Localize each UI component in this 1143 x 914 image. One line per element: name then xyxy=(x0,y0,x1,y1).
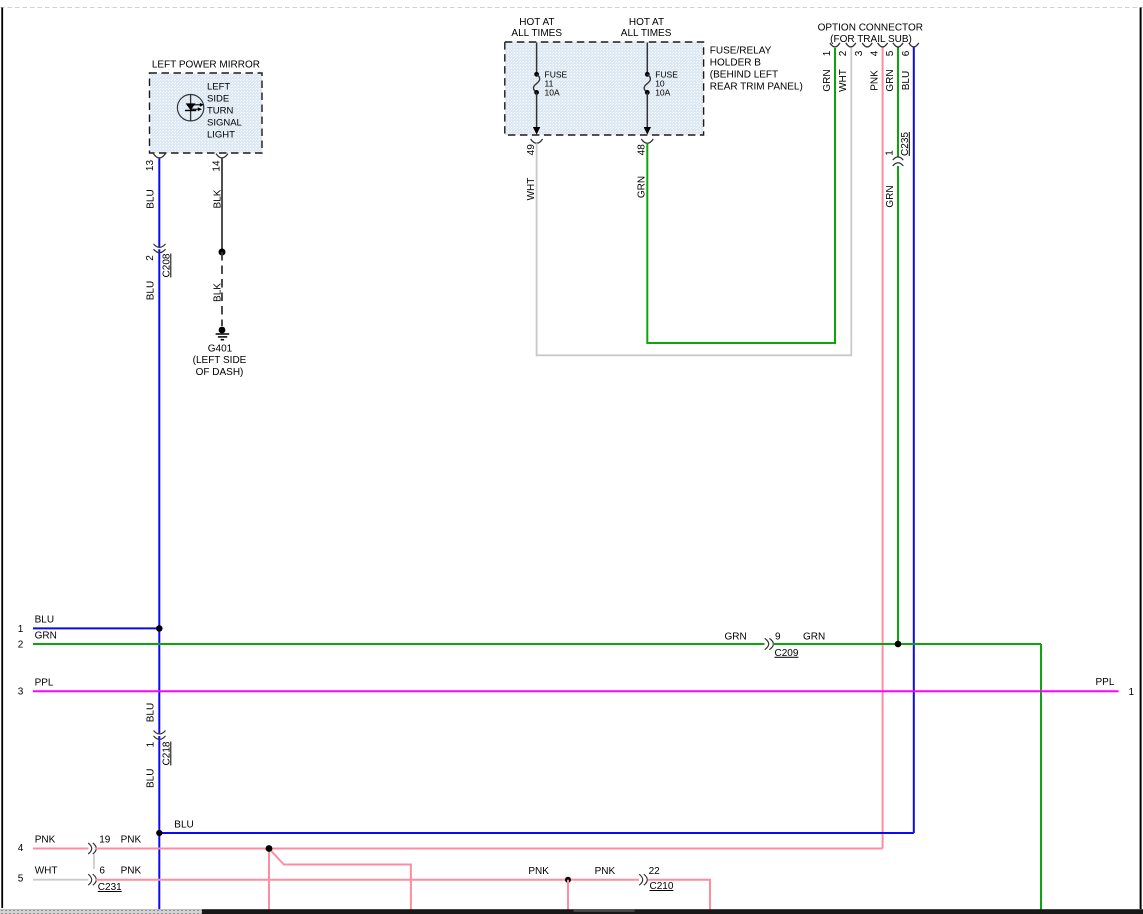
svg-text:PPL: PPL xyxy=(1096,677,1115,688)
svg-text:3: 3 xyxy=(854,50,865,56)
svg-text:22: 22 xyxy=(649,866,661,877)
svg-text:GRN: GRN xyxy=(885,69,896,91)
fuse 11 symbol xyxy=(533,43,568,135)
mirror box label text xyxy=(207,82,242,141)
svg-text:BLU: BLU xyxy=(901,71,912,90)
svg-text:GRN: GRN xyxy=(822,69,833,91)
svg-text:GRN: GRN xyxy=(637,176,648,198)
svg-text:LEFT: LEFT xyxy=(207,82,230,93)
svg-text:6: 6 xyxy=(901,50,912,56)
svg-text:C208: C208 xyxy=(161,253,172,277)
svg-text:C231: C231 xyxy=(98,882,122,893)
svg-text:WHT: WHT xyxy=(35,866,58,877)
svg-text:C209: C209 xyxy=(775,648,799,659)
svg-text:BLU: BLU xyxy=(146,769,157,788)
svg-text:C218: C218 xyxy=(161,741,172,765)
wire PNK vertical pin4 xyxy=(882,48,884,849)
svg-text:4: 4 xyxy=(870,50,881,56)
svg-text:WHT: WHT xyxy=(838,69,849,92)
svg-text:(BEHIND LEFT: (BEHIND LEFT xyxy=(710,70,778,81)
svg-text:3: 3 xyxy=(18,687,24,698)
svg-text:PNK: PNK xyxy=(121,834,142,845)
svg-text:9: 9 xyxy=(775,631,781,642)
wire WHT loop fuse11 to option pin2 xyxy=(537,48,852,355)
splice dot xyxy=(219,249,226,256)
wire PNK vertical from wire5 junction xyxy=(567,880,569,910)
svg-text:5: 5 xyxy=(18,874,24,885)
wire BLU vertical from pin 13 xyxy=(158,158,160,247)
pin 13 connector cup xyxy=(153,154,165,158)
wire 2 GRN horizontal left of C209 xyxy=(33,643,765,645)
svg-text:SIDE: SIDE xyxy=(207,94,229,105)
wire 4 PNK horizontal right xyxy=(96,848,883,850)
wire 2 GRN horizontal right of C209 xyxy=(773,643,1041,645)
svg-text:10A: 10A xyxy=(655,87,670,97)
svg-text:BLU: BLU xyxy=(146,703,157,722)
svg-text:1: 1 xyxy=(18,624,24,635)
svg-text:BLU: BLU xyxy=(35,614,54,625)
node wire5 junction xyxy=(565,877,571,883)
svg-text:PPL: PPL xyxy=(35,678,54,689)
svg-text:HOT AT: HOT AT xyxy=(629,17,664,28)
wire GRN vertical pin5 upper xyxy=(897,48,899,158)
svg-text:GRN: GRN xyxy=(803,631,825,642)
svg-text:GRN: GRN xyxy=(885,185,896,207)
fuse 10 symbol xyxy=(644,43,679,135)
svg-text:LIGHT: LIGHT xyxy=(207,130,235,141)
wire 5 PNK horizontal xyxy=(96,879,639,881)
svg-text:PNK: PNK xyxy=(595,866,616,877)
svg-text:REAR TRIM PANEL): REAR TRIM PANEL) xyxy=(710,82,803,93)
svg-text:PNK: PNK xyxy=(35,834,56,845)
svg-text:1: 1 xyxy=(822,50,833,56)
wire PNK vertical from junction xyxy=(268,849,270,910)
svg-text:OF DASH): OF DASH) xyxy=(196,367,244,378)
page border top dashed xyxy=(0,7,1143,9)
connector C231 arcs wire4 xyxy=(88,843,92,854)
svg-text:WHT: WHT xyxy=(526,178,537,201)
pin 48 connector cup xyxy=(641,139,653,143)
bottom bar dark xyxy=(0,909,1143,914)
connector C210 arcs xyxy=(639,874,643,885)
wire PNK branch diagonal xyxy=(270,850,411,910)
svg-text:(FOR TRAIL SUB): (FOR TRAIL SUB) xyxy=(830,34,912,45)
connector C208 arcs xyxy=(154,244,166,248)
HOT AT ALL TIMES label fuse 11 xyxy=(511,17,562,39)
svg-text:HOT AT: HOT AT xyxy=(519,17,554,28)
svg-text:GRN: GRN xyxy=(725,631,747,642)
connector C235 arcs xyxy=(893,157,904,160)
svg-text:48: 48 xyxy=(637,144,648,156)
svg-text:FUSE/RELAY: FUSE/RELAY xyxy=(710,46,772,57)
wire 1 BLU horizontal xyxy=(33,627,159,629)
LED symbol (left side turn signal light) xyxy=(177,94,204,121)
svg-text:C235: C235 xyxy=(900,132,911,156)
svg-text:GRN: GRN xyxy=(35,631,57,642)
svg-text:1: 1 xyxy=(145,741,156,747)
svg-text:PNK: PNK xyxy=(121,866,142,877)
svg-text:C210: C210 xyxy=(650,881,674,892)
node blue junction xyxy=(156,830,162,836)
svg-text:OPTION CONNECTOR: OPTION CONNECTOR xyxy=(818,23,923,34)
wire BLU horizontal bottom xyxy=(159,832,914,834)
svg-text:4: 4 xyxy=(18,843,24,854)
svg-text:BLK: BLK xyxy=(213,283,224,302)
svg-text:PNK: PNK xyxy=(528,866,549,877)
component box FUSE/RELAY HOLDER B xyxy=(505,42,704,135)
ground G401 xyxy=(193,327,247,378)
connector C218 arcs xyxy=(154,731,166,735)
OPTION CONNECTOR title xyxy=(818,23,923,45)
svg-text:5: 5 xyxy=(885,50,896,56)
wire 5 PNK right of C210 xyxy=(648,880,710,910)
wire BLK solid from pin 14 xyxy=(221,158,223,252)
svg-text:13: 13 xyxy=(145,160,156,172)
connector C231 arcs wire5 xyxy=(88,874,92,885)
wire 5 WHT horizontal left xyxy=(33,879,89,881)
svg-text:14: 14 xyxy=(211,160,222,172)
wire 4 PNK horizontal left xyxy=(33,848,89,850)
wire BLU vertical pin6 xyxy=(913,48,915,834)
wire 3 PPL horizontal xyxy=(33,690,1119,692)
svg-text:1: 1 xyxy=(1129,687,1135,698)
svg-text:49: 49 xyxy=(526,144,537,156)
bottom bar gray patch xyxy=(574,909,635,912)
wire 2 GRN vertical right end xyxy=(1040,644,1042,910)
svg-text:2: 2 xyxy=(18,639,24,650)
svg-text:TURN: TURN xyxy=(207,106,234,117)
C231 link line xyxy=(93,855,95,870)
svg-text:LEFT POWER MIRROR: LEFT POWER MIRROR xyxy=(152,60,260,71)
svg-text:SIGNAL: SIGNAL xyxy=(207,118,242,129)
svg-text:6: 6 xyxy=(99,866,105,877)
page border left xyxy=(1,8,3,909)
svg-text:ALL TIMES: ALL TIMES xyxy=(511,28,562,39)
wire GRN vertical pin5 lower xyxy=(897,166,899,644)
svg-text:10A: 10A xyxy=(545,87,560,97)
bottom bar left gray segment xyxy=(0,909,202,914)
svg-text:G401: G401 xyxy=(208,344,233,355)
node wire2/pin5 junction xyxy=(895,641,902,648)
HOT AT ALL TIMES label fuse 10 xyxy=(621,17,672,39)
pin 49 connector cup xyxy=(531,139,543,143)
connector C209 arcs xyxy=(765,638,769,649)
svg-text:2: 2 xyxy=(838,50,849,56)
svg-text:BLU: BLU xyxy=(146,281,157,300)
svg-text:HOLDER B: HOLDER B xyxy=(710,58,761,69)
node wire4 junction xyxy=(266,845,273,852)
svg-text:1: 1 xyxy=(885,150,896,156)
option connector cups pins 1-6 xyxy=(830,43,840,47)
svg-text:PNK: PNK xyxy=(870,70,881,91)
component box LEFT POWER MIRROR xyxy=(150,60,263,154)
svg-text:BLU: BLU xyxy=(174,820,193,831)
svg-text:19: 19 xyxy=(99,834,111,845)
page border right xyxy=(1140,8,1142,910)
svg-text:2: 2 xyxy=(145,255,156,261)
fuse holder caption xyxy=(710,46,803,93)
wire BLK dashed to ground xyxy=(221,252,223,326)
svg-text:BLK: BLK xyxy=(213,189,224,208)
svg-text:BLU: BLU xyxy=(146,189,157,208)
pin 14 connector cup xyxy=(216,154,228,158)
wire GRN loop fuse10 to option pin1 xyxy=(647,48,835,343)
node wire1/vertical junction xyxy=(156,625,163,632)
svg-text:(LEFT SIDE: (LEFT SIDE xyxy=(193,355,247,366)
svg-text:ALL TIMES: ALL TIMES xyxy=(621,28,672,39)
